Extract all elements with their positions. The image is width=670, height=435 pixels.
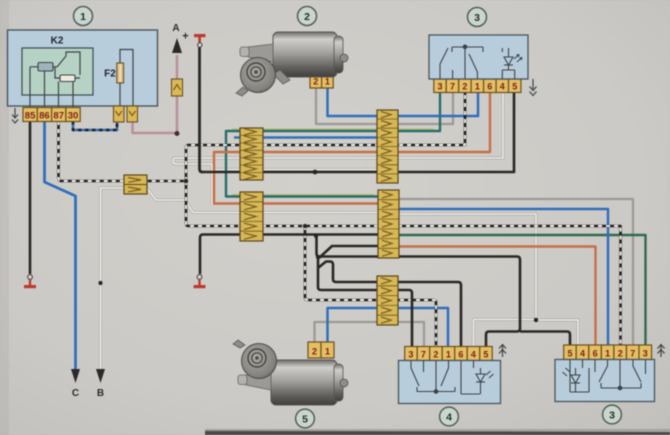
svg-text:5: 5 [512,82,517,92]
svg-text:+: + [182,31,188,43]
wire: teal switch3 pin3 loop to L2 row1 [226,92,440,197]
wire: yellow-green companion stripes [232,129,434,195]
ground: red pedestal on 85 wire [24,275,36,289]
arrow B [96,369,105,383]
wire: pink connector V2 to node A junction [133,122,177,133]
wire: black relay 85 to ground [29,121,32,274]
svg-text:7: 7 [421,349,426,359]
svg-text:6: 6 [487,82,492,92]
wire: blue relay 86 to point C [45,121,76,369]
svg-text:2: 2 [618,348,623,358]
junction block C2 [378,190,399,258]
svg-text:F2: F2 [104,69,116,80]
wire: orange switch3 pin6 loop to L2 row2 [214,92,490,204]
svg-text:3: 3 [408,349,413,359]
svg-text:1: 1 [446,349,451,359]
wire: black C2 row7 to conn3b pin 5 and connector 4 pin 5 [317,236,521,347]
svg-text:7: 7 [630,348,635,358]
connector 4 internals [411,361,480,395]
svg-text:1: 1 [325,347,330,357]
svg-text:1: 1 [325,76,330,86]
connector V1 [114,106,125,122]
wire: gray motor5 pin2 to connector 4 pin 7 [315,322,425,347]
svg-text:3: 3 [643,348,648,358]
node A junction dot [175,131,180,136]
wire: white U-loop row to switch 3 pin 4 [173,92,503,205]
arrow C [71,369,80,383]
label circle 1 [74,7,93,26]
ground: connector 3 bottom fork [658,345,665,358]
svg-text:30: 30 [68,111,79,122]
wire: blue L1 row [234,136,397,139]
arrow A with + [172,23,189,53]
svg-text:5: 5 [302,414,308,426]
wiper motor 2 [236,32,348,96]
power tap T (red) [194,34,206,47]
wire: orange C2 row6 to connector 3 bottom pin 6 [399,247,596,348]
junction block L2 [240,192,263,241]
relay terminal 85 [23,108,37,122]
junction block L1 [240,128,263,180]
svg-text:1: 1 [475,82,480,92]
svg-text:C: C [72,388,79,399]
wire: white from C2 to connector 3 bottom pin 4 [399,214,578,347]
connector on wire A [172,79,183,96]
svg-text:2: 2 [312,347,317,357]
label circle 5 [296,409,315,428]
svg-text:A: A [172,23,179,34]
svg-text:4: 4 [500,82,505,92]
svg-text:3: 3 [437,82,442,92]
svg-text:85: 85 [25,111,36,122]
relay internal wiring [30,52,80,108]
motor 5 terminals 2 1 [308,342,334,358]
ground: switch 3 fork [530,79,537,96]
svg-text:5: 5 [567,348,572,358]
svg-text:2: 2 [313,76,318,86]
svg-text:1: 1 [80,11,86,23]
wire: black branch to connector 4 pin 6 [318,262,461,348]
switch 3 LED indicator [504,48,522,70]
svg-text:2: 2 [462,82,467,92]
washer pump motor 5 [233,340,348,405]
connector 3 bottom terminals 5 4 6 1 2 7 3 [564,345,652,360]
svg-text:4: 4 [446,412,452,424]
connector 3 bottom box [555,360,655,402]
connector 3 bottom internals [570,360,646,393]
relay coil [38,63,53,72]
photo edge dark band [205,431,670,435]
wire: pink vertical to arrow A [176,55,179,133]
ground: relay case fork [12,108,18,123]
wire: black diagonal jog to C2 row6 [319,246,399,258]
connector 4 box [399,361,501,404]
motor 2 terminals 2 1 [310,72,333,89]
switch connector 3 top terminals 3 7 2 1 6 4 5 [434,79,521,93]
svg-text:K2: K2 [51,36,64,47]
junction block H1 [124,175,147,194]
wire: black row to C2 row5 [200,235,399,275]
svg-text:3: 3 [609,410,615,422]
svg-text:3: 3 [474,12,480,24]
svg-text:B: B [97,388,104,399]
wire: blue motor2 pin1 to switch 3 pin 1 [328,88,479,116]
wire: white stub to connector 4 pin 4 [474,320,537,348]
switch connector 3 top internals [440,45,515,79]
svg-text:4: 4 [580,348,585,358]
relay resistor [60,75,75,82]
wire: gray C2 row1 to connector 3 bottom pin 7 [399,199,633,347]
connector 4 terminals 3 7 2 1 6 4 5 [405,347,493,361]
svg-text:6: 6 [458,349,463,359]
svg-text:2: 2 [304,11,310,23]
wire: black row to switch 3 pin 5 [201,92,514,172]
connector 4 LED indicator [476,368,494,394]
svg-text:4: 4 [471,349,476,359]
wire: black-white striped relay 87 to H1 [59,92,621,347]
wire: blue motor5 pin1 to connector 4 pin 1 [328,308,449,347]
svg-text:5: 5 [483,349,488,359]
relay terminal 30 [66,108,80,122]
svg-text:1: 1 [605,348,610,358]
svg-text:86: 86 [39,111,50,122]
connector 3 bottom LED indicator [563,368,581,392]
node: junction dots [98,170,538,323]
relay K2 box [8,30,158,106]
wire: black-white striped branch to connector 4 pin 2 [305,226,436,347]
junction block C3 [377,276,398,325]
svg-text:2: 2 [433,349,438,359]
wire: black-white striped riser to switch 3 pin 2 [186,92,465,181]
svg-text:87: 87 [53,111,64,122]
wire: black from tap T down [200,48,203,173]
junction block C1 [377,110,398,183]
wire: black branch to connector 4 pin 3 [318,257,412,347]
wire: blue C2 row2 to connector 3 bottom pin 1 [399,209,608,347]
wire: blue-black twisted relay 30 to connector V1 [73,121,117,130]
ground: connector 4 fork [499,345,506,358]
label circle 2 [298,7,317,26]
wire: black-white striped down to connector 3 bottom pin 2 [186,181,621,347]
svg-text:6: 6 [593,348,598,358]
relay terminal 86 [37,108,51,122]
relay terminal 87 [52,108,66,122]
connector V2 [127,106,138,122]
relay K2 inner housing [22,48,93,95]
ground: red pedestal on T wire [194,275,206,289]
wire: white from H1 right to L2/C2 row [147,190,399,213]
fuse F2 [104,50,133,107]
wire: black riser to conn3b pin 5 [520,332,570,348]
wire: white from H1 to arrow B [101,92,579,372]
label circle 3b [603,405,622,424]
wire: gray motor2 pin2 to switch 3 pin 7 [316,88,453,124]
svg-text:7: 7 [450,82,455,92]
label circle 4 [440,407,459,426]
wire: green C2 row5 to connector 3 bottom pin 3 [399,235,646,347]
label circle 3 [468,8,487,27]
switch connector 3 top box [429,35,528,79]
